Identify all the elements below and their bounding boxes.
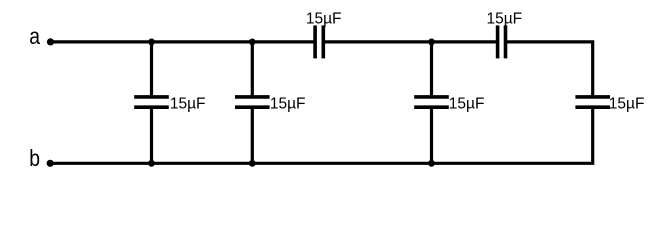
C4 top plate	[575, 95, 610, 99]
capacitor C4 (shunt right edge, 15µF)	[575, 96, 644, 113]
capacitor C3 (shunt, 15µF)	[414, 39, 484, 167]
svg-text:a: a	[29, 25, 40, 50]
wire C1 lower lead	[150, 107, 153, 163]
capacitor C6 (series, 15µF)	[487, 11, 523, 59]
svg-text:15µF: 15µF	[306, 11, 342, 28]
wire C1 upper lead	[150, 42, 153, 97]
node junction C2 top	[249, 39, 256, 46]
capacitor C2 (shunt, 15µF)	[235, 39, 306, 167]
node junction C3 top	[428, 39, 435, 46]
wire from C4 bottom plate to bottom-right corner and bottom rail to terminal b	[50, 107, 593, 163]
capacitor C1 (shunt, 15µF)	[134, 39, 205, 167]
wire C3 lower lead	[430, 107, 433, 163]
wire top rail segment C6 right plate to top-right corner, down to C4	[506, 42, 593, 97]
C5 left plate	[313, 25, 317, 58]
svg-text:15µF: 15µF	[609, 96, 645, 113]
C2 top plate	[235, 95, 270, 99]
node junction C1 bottom	[148, 160, 155, 167]
C4 bottom plate	[575, 105, 610, 109]
C1 top plate	[134, 95, 169, 99]
wire top rail segment C5 right plate to C6 left plate	[323, 40, 497, 43]
wire top rail segment a to C5 left plate	[51, 40, 316, 43]
capacitor C5 (series, 15µF)	[306, 11, 342, 59]
node junction C1 top	[148, 39, 155, 46]
C6 right plate	[504, 25, 508, 58]
wire C2 upper lead	[251, 42, 254, 97]
C6 left plate	[496, 25, 500, 58]
terminal b	[47, 160, 54, 167]
svg-text:b: b	[29, 146, 40, 171]
node junction C3 bottom	[428, 160, 435, 167]
C3 top plate	[414, 95, 449, 99]
node junction C2 bottom	[249, 160, 256, 167]
C1 bottom plate	[134, 105, 169, 109]
C5 right plate	[321, 25, 325, 58]
terminal a	[47, 38, 54, 45]
C2 bottom plate	[235, 105, 270, 109]
wire C2 lower lead	[251, 107, 254, 163]
svg-text:15µF: 15µF	[449, 96, 485, 113]
svg-text:15µF: 15µF	[170, 96, 206, 113]
wire C3 upper lead	[430, 42, 433, 97]
svg-text:15µF: 15µF	[270, 96, 306, 113]
svg-text:15µF: 15µF	[487, 11, 523, 28]
C3 bottom plate	[414, 105, 449, 109]
